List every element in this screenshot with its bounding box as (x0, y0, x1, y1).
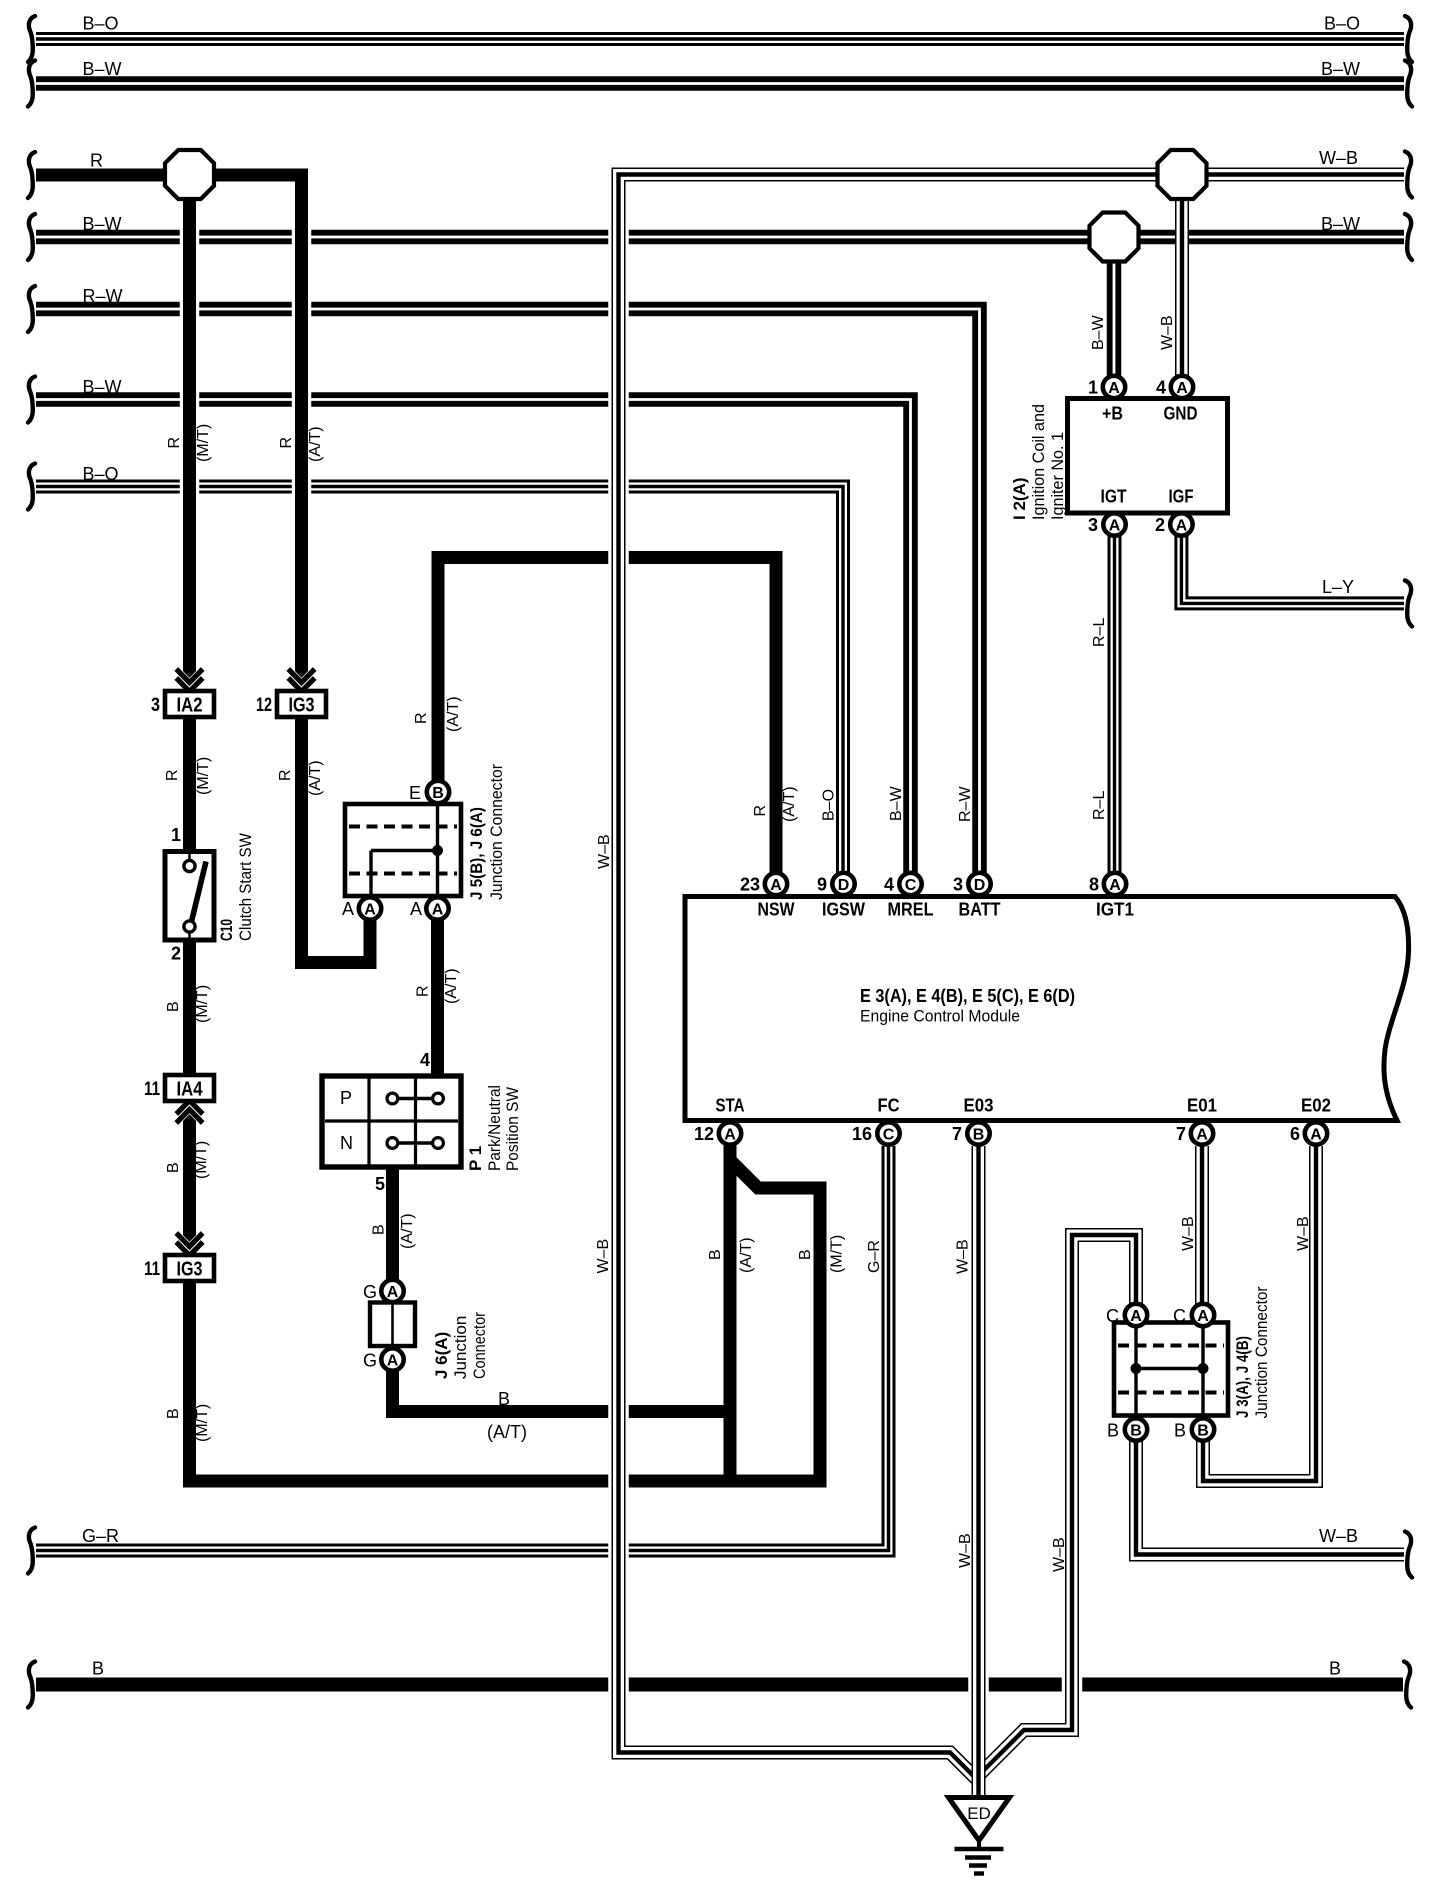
svg-text:ED: ED (967, 1804, 991, 1823)
svg-text:C: C (1106, 1306, 1119, 1326)
svg-text:B–O: B–O (1324, 14, 1360, 34)
svg-text:A: A (1197, 1308, 1209, 1325)
pin 1 A of I2(A) (1103, 376, 1125, 398)
node junction W-B octagon (1158, 150, 1207, 199)
svg-text:A: A (1108, 380, 1120, 397)
svg-text:6: 6 (1290, 1124, 1300, 1144)
svg-text:A: A (1109, 517, 1121, 534)
arrow up to IA4 (176, 1101, 202, 1124)
svg-text:J 6(A): J 6(A) (432, 1332, 451, 1379)
wire B (A/T) STA vertical (724, 1144, 737, 1481)
svg-text:W–B: W–B (596, 834, 613, 869)
svg-text:Junction Connector: Junction Connector (1252, 1286, 1271, 1418)
svg-text:Clutch Start SW: Clutch Start SW (236, 833, 255, 941)
svg-text:B: B (165, 1162, 182, 1173)
junction connector J5(B), J6(A) (345, 804, 461, 896)
svg-text:3: 3 (151, 695, 160, 716)
wire B-W octagon to ignition +B (1107, 237, 1122, 378)
svg-text:B–W: B–W (1321, 59, 1360, 79)
svg-text:P 1: P 1 (466, 1146, 485, 1171)
wire end B bottom right (1404, 1662, 1411, 1708)
svg-text:Position SW: Position SW (503, 1087, 522, 1171)
pin 4 A of I2(A) (1171, 376, 1193, 398)
wire R (A/T) vertical to IG3 (292, 175, 312, 682)
svg-text:A: A (342, 899, 354, 919)
svg-text:R: R (415, 985, 432, 997)
svg-text:P: P (340, 1088, 352, 1108)
svg-text:R–L: R–L (1091, 618, 1108, 647)
pin B bottom-right of J3/J4 (1192, 1418, 1214, 1440)
svg-text:IG3: IG3 (289, 695, 315, 717)
svg-text:12: 12 (256, 695, 272, 716)
wire W-B J3 pin C loop to ED (979, 1235, 1137, 1776)
svg-text:R–W: R–W (957, 786, 974, 822)
ECM E3(A) E4(B) E5(C) E6(D) Engine Control Module (685, 897, 1409, 1121)
svg-text:(M/T): (M/T) (193, 1141, 210, 1179)
wire B (M/T) IA4 to IG3 (183, 1098, 196, 1258)
pin 16 C FC (877, 1122, 899, 1144)
svg-text:Igniter No. 1: Igniter No. 1 (1048, 432, 1067, 520)
svg-text:IGT1: IGT1 (1096, 900, 1134, 920)
svg-text:E01: E01 (1187, 1096, 1217, 1116)
svg-text:STA: STA (716, 1096, 745, 1116)
svg-text:R: R (166, 437, 183, 449)
svg-text:A: A (1130, 1308, 1142, 1325)
pin 4 C MREL (899, 873, 921, 895)
svg-text:B: B (797, 1249, 814, 1260)
pin 12 A STA (719, 1122, 741, 1144)
svg-text:A: A (1176, 380, 1188, 397)
svg-text:A: A (1109, 877, 1121, 894)
wire W-B J3 pin B to right edge (1136, 1440, 1404, 1555)
svg-text:R–L: R–L (1091, 791, 1108, 820)
wire B (M/T) IG3 to STA junction (190, 1278, 827, 1481)
svg-text:1: 1 (171, 825, 181, 845)
wire R (M/T) IA2 to C10 (183, 715, 196, 852)
wire B-W row2 (36, 230, 1404, 245)
pin 6 A E02 (1305, 1122, 1327, 1144)
wire end R-W left (28, 286, 35, 332)
svg-text:B–O: B–O (83, 464, 119, 484)
svg-text:B: B (707, 1249, 724, 1260)
svg-text:J 5(B), J 6(A): J 5(B), J 6(A) (467, 807, 486, 900)
svg-text:W–B: W–B (1051, 1537, 1068, 1572)
svg-text:FC: FC (878, 1096, 900, 1116)
svg-text:W–B: W–B (595, 1239, 612, 1274)
svg-text:G–R: G–R (866, 1240, 883, 1273)
svg-text:G: G (363, 1282, 377, 1302)
svg-text:7: 7 (1176, 1124, 1186, 1144)
svg-text:B–W: B–W (83, 377, 122, 397)
svg-text:IA4: IA4 (177, 1079, 204, 1101)
wire B (A/T) J6(A) joins STA wire (393, 1370, 737, 1412)
svg-text:Connector: Connector (470, 1312, 489, 1379)
svg-text:A: A (1176, 517, 1188, 534)
wire end W-B bottom right (1405, 1532, 1412, 1578)
svg-text:4: 4 (420, 1050, 430, 1070)
svg-text:R: R (278, 437, 295, 449)
pin 3 D BATT (968, 873, 990, 895)
svg-text:W–B: W–B (1319, 148, 1358, 168)
svg-text:B: B (165, 1408, 182, 1419)
svg-text:R: R (277, 769, 294, 781)
svg-text:3: 3 (1088, 515, 1098, 535)
svg-text:Junction: Junction (451, 1316, 470, 1379)
svg-text:B–W: B–W (1090, 314, 1107, 350)
svg-text:16: 16 (852, 1124, 872, 1144)
connector 11 IA4 (144, 1075, 214, 1101)
svg-text:(A/T): (A/T) (445, 696, 462, 732)
svg-text:A: A (1310, 1126, 1322, 1143)
svg-text:11: 11 (144, 1079, 160, 1100)
svg-text:A: A (1196, 1126, 1208, 1143)
svg-text:GND: GND (1164, 404, 1198, 424)
svg-text:2: 2 (1155, 515, 1165, 535)
wire B bus bottom (36, 1678, 1403, 1692)
arrow down to IG3 no12 (288, 669, 314, 692)
svg-text:IA2: IA2 (177, 695, 203, 717)
wire end B-W row3 left (28, 377, 35, 423)
ignition coil I2(A) Ignition Coil and Igniter No. 1 (1068, 399, 1228, 514)
wire B-W bus top (36, 76, 1404, 91)
pin 8 A IGT1 (1104, 873, 1126, 895)
wire W-B E03 upper (968, 1146, 989, 1745)
wire end B-W row2 right (1405, 214, 1412, 260)
wire B-W row3 to MREL (36, 400, 911, 875)
svg-text:B–W: B–W (83, 59, 122, 79)
wire R (A/T) J6 pin A to P1 pin 4 (431, 918, 444, 1078)
svg-text:(A/T): (A/T) (399, 1213, 416, 1249)
svg-text:(A/T): (A/T) (443, 968, 460, 1004)
svg-text:B–W: B–W (888, 785, 905, 821)
wire B-O bus top (36, 32, 1404, 46)
svg-text:B: B (432, 785, 444, 802)
ground symbol bars (955, 1840, 1004, 1874)
svg-text:B: B (1197, 1422, 1209, 1439)
arrow down to IG3 no11 (176, 1233, 202, 1256)
svg-text:(M/T): (M/T) (829, 1235, 846, 1273)
wire end L-Y right (1405, 580, 1412, 626)
wire end B-W row2 left (28, 214, 35, 260)
svg-text:11: 11 (144, 1259, 160, 1280)
wire R-L IGT to IGT1 (1108, 533, 1122, 874)
svg-text:7: 7 (952, 1124, 962, 1144)
svg-text:I 2(A): I 2(A) (1010, 478, 1029, 521)
svg-text:23: 23 (740, 875, 760, 895)
switch C10 Clutch Start SW (165, 852, 214, 941)
svg-text:D: D (974, 877, 986, 894)
wire W-B E02 loop to J3 connector (1203, 1146, 1316, 1481)
ground ED triangle (949, 1798, 1010, 1841)
wire G-R row to FC (36, 1150, 889, 1551)
svg-text:5: 5 (375, 1174, 385, 1194)
wire end G-R left (28, 1528, 35, 1574)
svg-text:+B: +B (1102, 404, 1123, 424)
svg-text:N: N (340, 1133, 353, 1153)
svg-text:W–B: W–B (1295, 1216, 1312, 1251)
svg-text:4: 4 (884, 875, 894, 895)
svg-text:Junction Connector: Junction Connector (487, 764, 506, 900)
wire end B-O row2 left (28, 464, 35, 510)
wire R (M/T) vertical from octagon (180, 175, 200, 682)
svg-text:E 3(A), E 4(B), E 5(C), E 6(D): E 3(A), E 4(B), E 5(C), E 6(D) (860, 986, 1075, 1006)
wire end B-O top left (28, 16, 35, 62)
wire W-B octagon to ignition GND (1175, 175, 1189, 379)
pin B of J5(B) (427, 781, 449, 803)
wire B (M/T) branch from STA (730, 1160, 820, 1481)
svg-text:(A/T): (A/T) (487, 1422, 527, 1442)
svg-text:C: C (883, 1126, 895, 1143)
svg-text:J 3(A), J 4(B): J 3(A), J 4(B) (1233, 1336, 1252, 1418)
wire G-R FC drop (882, 1146, 896, 1155)
junction connector J6(A) box (370, 1303, 415, 1347)
svg-text:2: 2 (171, 944, 181, 964)
pin 23 A NSW (765, 873, 787, 895)
svg-text:R: R (90, 151, 103, 171)
svg-text:B–O: B–O (83, 14, 119, 34)
node junction R octagon (165, 150, 214, 199)
svg-text:4: 4 (1156, 378, 1166, 398)
svg-text:B–W: B–W (83, 214, 122, 234)
svg-text:B: B (973, 1126, 985, 1143)
svg-text:C: C (1173, 1306, 1186, 1326)
svg-text:IGF: IGF (1169, 487, 1194, 507)
wire end W-B right (1405, 152, 1412, 198)
connector 3 IA2 (151, 691, 214, 717)
wire end B bottom left (28, 1662, 35, 1708)
wire B-O row2 to IGSW (36, 487, 843, 875)
svg-text:E: E (409, 783, 421, 803)
svg-text:E03: E03 (964, 1096, 994, 1116)
svg-text:(M/T): (M/T) (195, 424, 212, 462)
svg-text:L–Y: L–Y (1322, 577, 1354, 597)
wire R feed from left (36, 169, 308, 182)
switch P1 Park/Neutral Position SW (322, 1076, 461, 1167)
svg-text:(A/T): (A/T) (781, 786, 798, 822)
wire W-B trunk into ED (972, 1726, 986, 1799)
svg-text:A: A (387, 1352, 399, 1369)
svg-text:MREL: MREL (888, 900, 934, 920)
svg-text:B: B (1329, 1659, 1341, 1679)
svg-text:W–B: W–B (955, 1239, 972, 1274)
node junction B-W octagon (1090, 213, 1139, 262)
svg-text:A: A (410, 899, 422, 919)
svg-text:G–R: G–R (82, 1526, 119, 1546)
svg-text:B: B (498, 1389, 510, 1409)
svg-text:B–W: B–W (1321, 214, 1360, 234)
pin A upper of J6(A) small (381, 1280, 403, 1302)
svg-text:C10: C10 (217, 919, 236, 941)
connector 12 IG3 (256, 691, 326, 717)
svg-text:(A/T): (A/T) (738, 1237, 755, 1273)
svg-text:IGSW: IGSW (822, 900, 865, 920)
svg-text:NSW: NSW (758, 900, 795, 920)
pin A top-left of J3/J4 (1125, 1304, 1147, 1326)
svg-text:W–B: W–B (957, 1533, 974, 1568)
pin A left of J6(A) (359, 897, 381, 919)
svg-text:A: A (364, 901, 376, 918)
arrow down to IA2 (176, 669, 202, 692)
svg-text:A: A (387, 1284, 399, 1301)
svg-text:B: B (371, 1224, 388, 1235)
svg-text:Engine Control Module: Engine Control Module (860, 1007, 1020, 1026)
wire B (M/T) C10 to IA4 (183, 939, 196, 1078)
svg-text:B: B (1174, 1421, 1186, 1441)
pin A right of J6(A) (426, 897, 448, 919)
pin 3 A of I2(A) (1103, 513, 1125, 535)
wire W-B right bus and long drop to ED (619, 175, 1405, 1782)
svg-text:IG3: IG3 (177, 1259, 203, 1281)
svg-text:W–B: W–B (1159, 315, 1176, 350)
wire R (A/T) NSW loop (438, 558, 776, 875)
pin B bottom-left of J3/J4 (1125, 1418, 1147, 1440)
junction connector J3(A), J4(B) box (1114, 1323, 1228, 1416)
svg-text:B: B (92, 1659, 104, 1679)
wire B (A/T) P1 pin 5 to J6(A) (386, 1165, 399, 1282)
wire R (A/T) IG3 elbow to J5 pin A (302, 715, 371, 963)
svg-text:A: A (770, 877, 782, 894)
svg-text:(M/T): (M/T) (194, 985, 211, 1023)
svg-text:12: 12 (694, 1124, 714, 1144)
wire R-L IGF to L-Y (1181, 533, 1404, 603)
svg-text:W–B: W–B (1319, 1526, 1358, 1546)
pin A top-right of J3/J4 (1192, 1304, 1214, 1326)
pin 7 A E01 (1191, 1122, 1213, 1144)
svg-text:9: 9 (817, 875, 827, 895)
svg-text:C: C (905, 877, 917, 894)
pin 2 A of I2(A) (1170, 513, 1192, 535)
svg-text:B–O: B–O (821, 789, 838, 821)
pin A lower of J6(A) small (381, 1348, 403, 1370)
svg-text:(A/T): (A/T) (307, 426, 324, 462)
pin 9 D IGSW (832, 873, 854, 895)
svg-text:B: B (165, 1001, 182, 1012)
svg-text:D: D (838, 877, 850, 894)
svg-text:1: 1 (1088, 378, 1098, 398)
svg-text:(M/T): (M/T) (194, 1404, 211, 1442)
svg-text:IGT: IGT (1101, 487, 1127, 507)
svg-text:BATT: BATT (959, 900, 1001, 920)
svg-text:R: R (413, 712, 430, 724)
svg-text:R: R (752, 805, 769, 817)
wire end R left (28, 152, 35, 198)
svg-text:R: R (164, 769, 181, 781)
svg-text:(M/T): (M/T) (195, 757, 212, 795)
svg-text:B: B (1130, 1422, 1142, 1439)
wire end B-W top left (28, 61, 35, 107)
svg-text:W–B: W–B (1180, 1216, 1197, 1251)
wire end B-O top right (1405, 16, 1412, 62)
svg-text:3: 3 (953, 875, 963, 895)
svg-text:E02: E02 (1301, 1096, 1331, 1116)
svg-text:A: A (724, 1126, 736, 1143)
svg-text:Park/Neutral: Park/Neutral (485, 1085, 504, 1171)
svg-text:(A/T): (A/T) (307, 760, 324, 796)
svg-text:R–W: R–W (83, 286, 123, 306)
svg-text:Ignition Coil and: Ignition Coil and (1029, 404, 1048, 520)
connector 11 IG3 (144, 1255, 214, 1281)
svg-text:B: B (1107, 1421, 1119, 1441)
svg-text:A: A (432, 901, 444, 918)
svg-text:G: G (363, 1351, 377, 1371)
wire R-W row to BATT (36, 309, 980, 874)
pin 7 B E03 (967, 1122, 989, 1144)
wire end B-W top right (1405, 61, 1412, 107)
svg-text:8: 8 (1089, 875, 1099, 895)
wire W-B E01 to J3 connector (1195, 1146, 1209, 1306)
